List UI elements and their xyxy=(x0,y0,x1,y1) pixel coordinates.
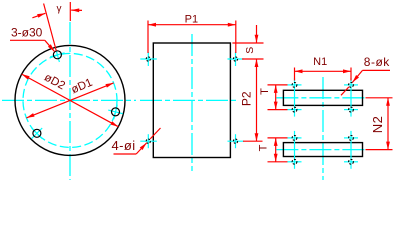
svg-text:N1: N1 xyxy=(313,56,327,68)
svg-text:P1: P1 xyxy=(185,13,198,25)
wire : N1 dimension line xyxy=(295,70,352,72)
node : top clamp bar xyxy=(283,90,362,105)
wire : S arrow above xyxy=(256,25,258,43)
wire : P2 bottom extension xyxy=(243,140,263,142)
node : bolt hole 1 (3-o30) xyxy=(53,51,61,59)
node : bottom clamp bar xyxy=(283,143,362,157)
wire : N2 dimension line xyxy=(387,98,389,150)
node : side-view hole 3 (4-oi) xyxy=(146,139,150,143)
wire : N1 extension lines xyxy=(294,68,296,81)
wire : N2 extension lines xyxy=(366,97,393,99)
node : bolt circle (cyan dashed) xyxy=(23,53,117,147)
node : outer circle of flange (left view) xyxy=(15,45,125,155)
node : bar hole 3 (8-ok) xyxy=(292,107,297,112)
node : side-view hole 2 centermark xyxy=(228,58,245,60)
node : bar hole 4 (8-ok) xyxy=(349,107,354,112)
wire : bottom bar horizontal centerline xyxy=(276,149,364,151)
wire : middle view vertical centerline xyxy=(191,34,193,171)
wire : dimension line oD2 xyxy=(22,74,119,127)
wire : angular dim radial extension line xyxy=(44,4,57,51)
wire : angular dim vertical extension line xyxy=(69,2,71,21)
node : bar hole 5 (8-ok) xyxy=(292,136,297,141)
wire : angular dim right arc arm with arrow xyxy=(71,9,82,11)
wire : left view horizontal centerline xyxy=(2,99,136,101)
node : bar hole 1 (8-ok) xyxy=(292,83,297,88)
node : bolt hole 2 centermark xyxy=(108,110,123,114)
node : bar hole 5 centermark xyxy=(288,137,302,139)
node : bar hole 2 centermark xyxy=(344,84,358,86)
wire : hole column centerlines (cyan) xyxy=(294,78,296,117)
wire : right view vertical centerline xyxy=(322,77,324,180)
node : bolt hole 1 centermark xyxy=(55,48,59,62)
wire : angular dim left arc arm with arrow xyxy=(32,13,45,17)
node : side-view hole 4 (4-oi) xyxy=(233,139,237,143)
node : bolt hole 3 (3-o30) xyxy=(33,129,41,137)
svg-text:T: T xyxy=(259,88,271,95)
svg-text:3-ø30: 3-ø30 xyxy=(11,26,43,40)
node : side-view hole 2 (4-oi) xyxy=(233,57,237,61)
node : bar hole 4 centermark xyxy=(344,109,358,111)
wire : P2 dimension line xyxy=(256,59,258,141)
wire : middle view horizontal centerline xyxy=(140,99,237,101)
wire : left view vertical centerline xyxy=(69,22,71,180)
node : side-view hole 3 centermark xyxy=(140,140,157,142)
wire : P1 dimension line xyxy=(148,24,236,26)
wire : T dim top bar dimension line xyxy=(275,85,277,110)
wire : leader 8-ok xyxy=(363,69,391,71)
node : bar hole 2 (8-ok) xyxy=(349,83,354,88)
svg-text:4-øi: 4-øi xyxy=(112,138,136,153)
node : bar hole 6 centermark xyxy=(344,137,358,139)
wire : leader 4-oi xyxy=(114,153,137,155)
wire : S extension lines xyxy=(232,42,263,44)
node : bar hole 7 centermark xyxy=(288,161,302,163)
node : side-view hole 1 centermark xyxy=(140,58,157,60)
wire : dimension line oD1 xyxy=(26,83,113,118)
svg-text:P2: P2 xyxy=(240,91,254,106)
wire : top bar horizontal centerline xyxy=(276,97,364,99)
node : bolt hole 3 centermark xyxy=(32,128,43,139)
node : bar hole 8 (8-ok) xyxy=(349,159,354,164)
svg-text:γ: γ xyxy=(57,4,62,15)
node : bolt hole 2 (3-o30) xyxy=(112,108,120,116)
svg-text:T: T xyxy=(258,144,270,151)
wire : leader 3-o30 xyxy=(10,39,45,41)
wire : T dim top bar extension lines xyxy=(268,84,288,86)
node : bar hole 8 centermark xyxy=(344,161,358,163)
wire : P1 extension lines xyxy=(147,21,149,54)
svg-text:8-øk: 8-øk xyxy=(364,55,391,69)
svg-text:N2: N2 xyxy=(370,116,385,134)
node : bar hole 6 (8-ok) xyxy=(349,136,354,141)
node : cylinder body rectangle (middle view) xyxy=(153,43,230,158)
node : side-view hole 1 (4-oi) xyxy=(146,57,150,61)
node : side-view hole 4 centermark xyxy=(228,140,245,142)
node : bar hole 1 centermark xyxy=(288,84,302,86)
node : bar hole 7 (8-ok) xyxy=(292,159,297,164)
wire : T dim bottom bar extension lines xyxy=(268,137,288,139)
svg-text:S: S xyxy=(244,47,256,54)
wire : T dim bottom bar dimension line xyxy=(275,138,277,162)
node : bar hole 3 centermark xyxy=(288,109,302,111)
